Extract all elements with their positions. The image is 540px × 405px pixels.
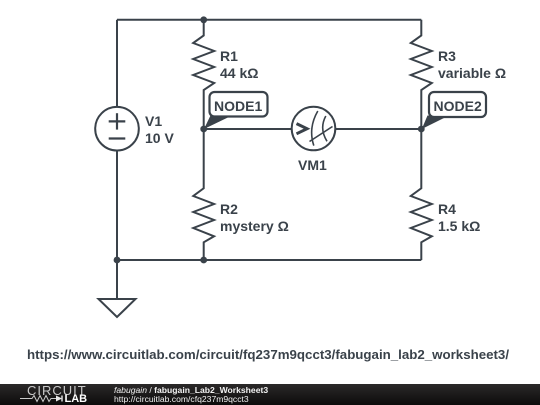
svg-text:LAB: LAB xyxy=(65,393,88,405)
